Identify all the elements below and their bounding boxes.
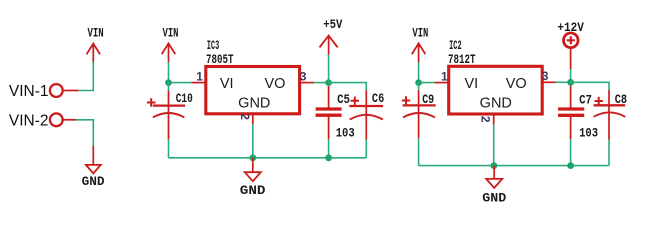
wire IC2 pin 2 to ground rail [493, 125, 495, 166]
svg-text:VIN: VIN [88, 27, 104, 41]
svg-text:2: 2 [479, 116, 493, 123]
capacitor C6 bottom lead [365, 107, 367, 158]
svg-text:+12V: +12V [557, 21, 584, 35]
capacitor C10 bottom lead [168, 107, 170, 158]
svg-text:7812T: 7812T [448, 53, 476, 67]
capacitor C7 top lead [570, 86, 572, 108]
junction node pin2/GND rail [249, 154, 256, 161]
svg-text:1: 1 [441, 69, 448, 83]
svg-text:103: 103 [336, 127, 355, 141]
junction node C7/GND rail [567, 162, 574, 169]
capacitor C10 top lead [168, 83, 170, 105]
pin stub IC3 pin 2 [252, 114, 254, 125]
wire +5V node up [328, 55, 330, 83]
capacitor C6 plus sign [351, 97, 359, 105]
net label GND (left) [82, 175, 105, 189]
capacitor C9 label [422, 93, 434, 107]
pin stub IC2 pin 3 [542, 81, 555, 83]
value label 7812T [448, 53, 476, 67]
pin name GND (IC2) [480, 96, 512, 112]
svg-text:1: 1 [196, 69, 203, 83]
capacitor C8 plates [594, 105, 626, 117]
svg-text:VI: VI [464, 76, 478, 92]
svg-text:C10: C10 [176, 92, 193, 106]
net label VIN (right) [412, 27, 428, 41]
svg-text:VIN: VIN [412, 27, 428, 41]
junction node +12V/C7 [567, 79, 574, 86]
capacitor C8 top lead [608, 90, 610, 104]
wire node to IC3 pin 1 [169, 82, 192, 84]
net label GND (middle) [240, 184, 266, 198]
op-amp IC3 body [206, 67, 300, 114]
junction node VIN/C9/pin1 [415, 79, 422, 86]
wire VIN down to node (middle) [168, 62, 170, 83]
capacitor C6 plates [349, 106, 383, 120]
svg-text:VI: VI [220, 76, 234, 92]
capacitor C10 plus sign [147, 98, 156, 107]
svg-text:C7: C7 [579, 93, 592, 107]
net label VIN (left) [88, 27, 104, 41]
pin name VO (IC3) [265, 76, 286, 92]
pin number 2 (IC3, rotated) [238, 113, 252, 120]
svg-text:IC2: IC2 [449, 39, 462, 53]
pin stub VIN-1 [64, 90, 79, 92]
svg-text:IC3: IC3 [207, 39, 220, 53]
wire +5V node to C6 [329, 83, 367, 91]
pin stub VIN-2 [64, 119, 77, 121]
svg-text:2: 2 [238, 113, 252, 120]
capacitor C7 label [579, 93, 592, 107]
capacitor C9 plates [403, 105, 436, 117]
connector pin VIN-1 label [9, 83, 49, 100]
pin name GND (IC3) [238, 96, 270, 112]
power symbol +5V [320, 36, 338, 55]
svg-text:C5: C5 [337, 93, 350, 107]
wire IC3 pin 3 to +5V node [314, 82, 329, 84]
pin name VI (IC2) [464, 76, 478, 92]
capacitor C8 bottom lead [608, 106, 610, 165]
wire IC3 pin 2 to ground rail [252, 124, 254, 157]
junction node VIN/C10/pin1 [165, 79, 172, 86]
value label 7805T [206, 53, 234, 67]
junction node +5V/C5 [325, 79, 332, 86]
pin number 3 (IC3) [300, 69, 307, 83]
svg-text:GND: GND [482, 191, 507, 205]
wire VIN down to node (right) [418, 62, 420, 83]
svg-text:GND: GND [82, 175, 105, 189]
capacitor C10 label [176, 92, 193, 106]
capacitor C5 bottom lead [328, 117, 330, 158]
pin stub IC3 pin 3 [300, 82, 314, 84]
wire node to IC2 pin 1 [419, 82, 435, 84]
ground symbol (middle) [245, 158, 261, 181]
svg-text:VIN-1: VIN-1 [9, 83, 49, 100]
svg-text:VIN: VIN [163, 27, 179, 41]
capacitor C6 top lead [365, 90, 367, 105]
ground rail (middle) [169, 157, 367, 159]
capacitor C9 bottom lead [418, 106, 420, 165]
wire +12V node to C8 [571, 82, 609, 90]
power symbol VIN (middle) [162, 43, 176, 62]
capacitor C8 label [615, 93, 627, 107]
net label GND (right) [482, 191, 507, 205]
wire VIN-2 to GND net [76, 120, 93, 146]
junction node C5/GND rail [325, 154, 332, 161]
pin name VO (IC2) [506, 76, 527, 92]
svg-text:C6: C6 [372, 92, 384, 106]
label IC2 [449, 39, 462, 53]
capacitor C9 top lead [418, 83, 420, 105]
svg-text:VO: VO [265, 76, 286, 92]
svg-text:+5V: +5V [323, 18, 343, 32]
power symbol +12V [564, 33, 579, 69]
connector pin VIN-2 circle [50, 113, 63, 126]
net label +5V [323, 18, 343, 32]
wire +12V node up [570, 69, 572, 82]
pin stub IC2 pin 1 [435, 82, 449, 84]
capacitor C9 plus sign [402, 96, 410, 104]
junction node pin2/GND rail (right) [491, 162, 498, 169]
capacitor C6 label [372, 92, 384, 106]
wire IC2 pin 3 to +12V node [556, 81, 571, 83]
net label VIN (middle) [163, 27, 179, 41]
svg-text:VIN-2: VIN-2 [9, 113, 49, 130]
svg-text:GND: GND [240, 184, 266, 198]
power symbol VIN (right) [412, 43, 426, 62]
wire VIN-1 to VIN net [78, 61, 93, 90]
capacitor C5 plates [316, 109, 342, 115]
svg-text:3: 3 [300, 69, 307, 83]
capacitor C8 plus sign [595, 97, 603, 105]
connector pin VIN-1 circle [50, 84, 63, 97]
pin number 1 (IC2) [441, 69, 448, 83]
net label +12V [557, 21, 584, 35]
pin number 1 (IC3) [196, 69, 203, 83]
capacitor C7 plates [558, 109, 584, 115]
pin number 2 (IC2, rotated) [479, 116, 493, 123]
pin stub IC2 pin 2 [493, 114, 495, 125]
capacitor C7 bottom lead [570, 117, 572, 166]
svg-text:3: 3 [542, 69, 549, 83]
svg-text:GND: GND [238, 96, 270, 112]
capacitor C10 plates [153, 106, 185, 118]
pin name VI (IC3) [220, 76, 234, 92]
ground rail (right) [419, 165, 609, 167]
connector pin VIN-2 label [9, 113, 49, 130]
label IC3 [207, 39, 220, 53]
capacitor C5 top lead [328, 86, 330, 108]
capacitor C5 value 103 [336, 127, 355, 141]
power symbol VIN (left) [87, 44, 101, 62]
pin stub IC3 pin 1 [192, 82, 206, 84]
svg-text:GND: GND [480, 96, 512, 112]
ground symbol (left) [86, 146, 101, 173]
svg-text:103: 103 [579, 126, 598, 140]
pin number 3 (IC2) [542, 69, 549, 83]
capacitor C5 label [337, 93, 350, 107]
capacitor C7 value 103 [579, 126, 598, 140]
op-amp IC2 body [449, 66, 543, 114]
svg-text:7805T: 7805T [206, 53, 234, 67]
ground symbol (right) [486, 166, 502, 188]
svg-text:VO: VO [506, 76, 527, 92]
